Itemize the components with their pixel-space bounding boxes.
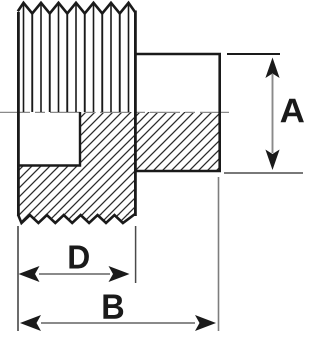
hatch teeth row bottom: [18, 214, 135, 223]
label D: [69, 246, 88, 269]
arrowhead B left: [20, 315, 41, 331]
thread crest lines (from peaks): [24, 4, 129, 112]
extension line D right: [135, 226, 137, 283]
top thread zigzag crest outline: [18, 3, 135, 14]
body left edge: [17, 12, 20, 216]
hatch section small cylinder lower half: [135, 112, 220, 171]
extension line B right: [218, 177, 220, 331]
dimension line D shaft: [39, 273, 110, 275]
thread root lines (from valleys): [32, 14, 120, 112]
body right face edge: [134, 11, 137, 217]
arrowhead D left: [19, 266, 40, 282]
arrowhead A down: [265, 150, 279, 171]
arrowhead D right: [109, 266, 130, 282]
arrowhead A up: [265, 58, 279, 79]
centerline: [0, 111, 229, 113]
extension line B left: [17, 226, 19, 331]
extension line A top: [227, 53, 280, 55]
hatch section body large (L-shaped lower half of threaded body): [18, 112, 135, 215]
label B: [103, 295, 123, 319]
extension line A bottom: [224, 172, 303, 174]
internal bore outline: [18, 112, 80, 166]
bottom thread zigzag outline: [18, 214, 135, 223]
dimension line B shaft: [41, 322, 195, 324]
label A: [281, 99, 304, 123]
dimension line A shaft: [272, 74, 274, 153]
arrowhead B right: [195, 315, 216, 331]
small cylinder outline: [135, 54, 220, 171]
